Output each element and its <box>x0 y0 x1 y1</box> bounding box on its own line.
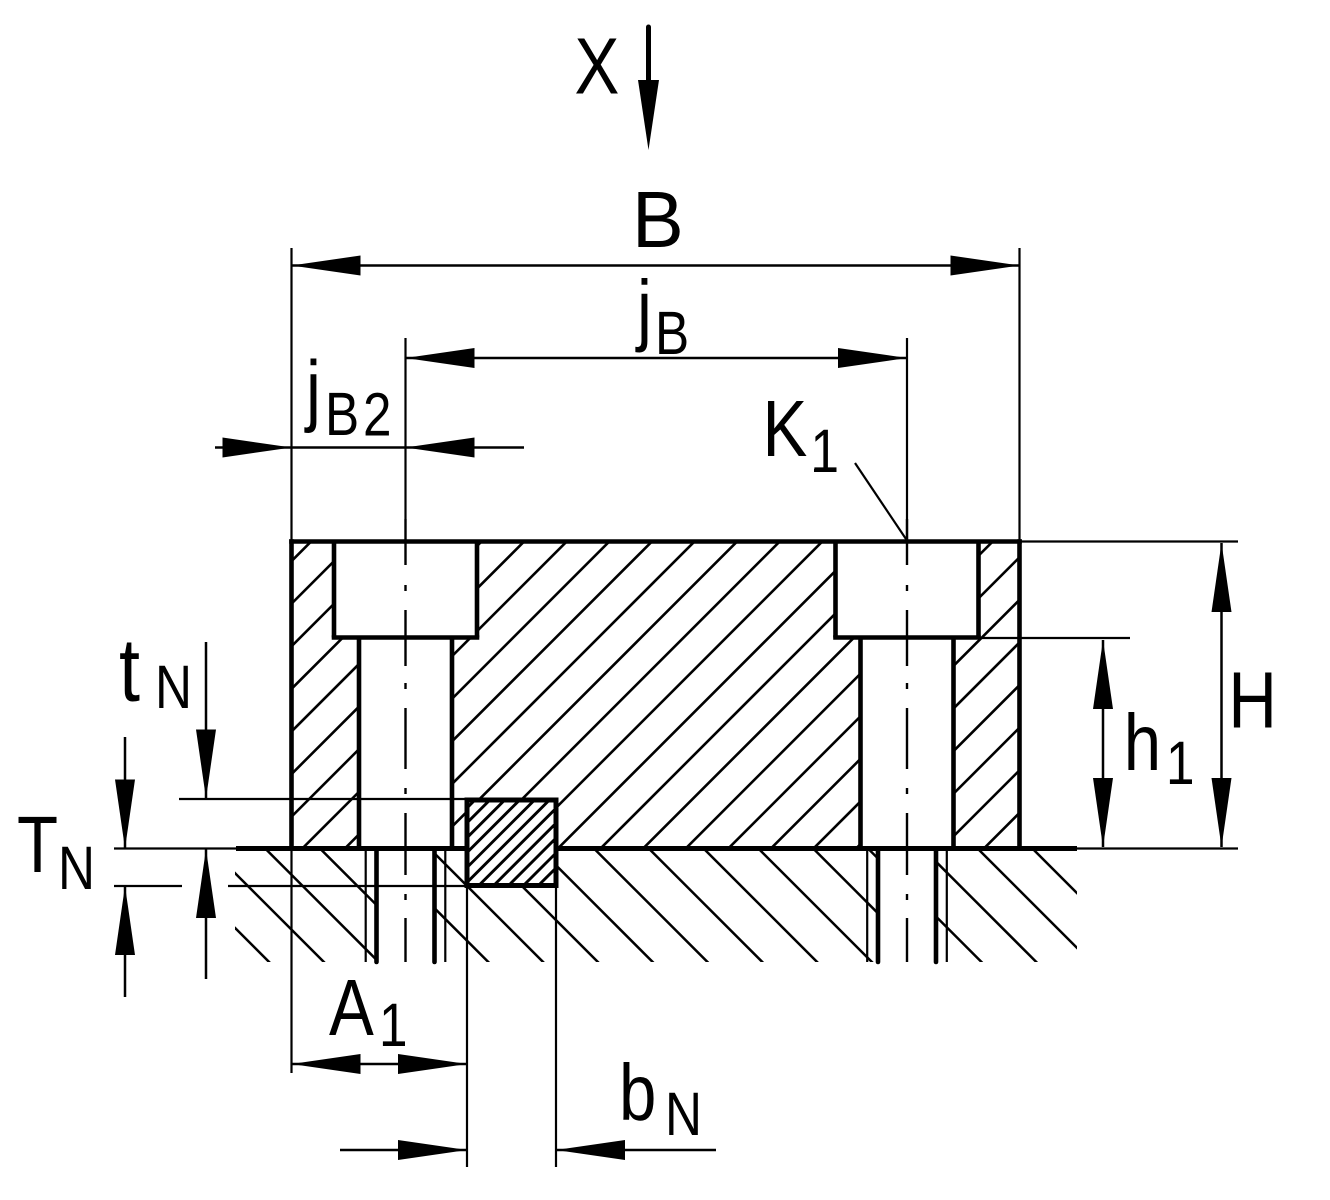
svg-text:1: 1 <box>379 991 407 1059</box>
svg-text:j: j <box>304 344 321 434</box>
svg-text:t: t <box>119 620 140 721</box>
svg-text:1: 1 <box>1166 729 1194 797</box>
svg-text:b: b <box>619 1047 656 1137</box>
svg-text:N: N <box>665 1080 702 1148</box>
svg-text:1: 1 <box>811 417 839 485</box>
svg-text:N: N <box>155 653 192 721</box>
svg-text:j: j <box>635 263 652 353</box>
svg-text:B: B <box>325 380 359 448</box>
svg-text:2: 2 <box>363 380 391 448</box>
svg-text:A: A <box>329 962 374 1052</box>
svg-text:K: K <box>763 383 808 473</box>
svg-text:N: N <box>58 834 95 902</box>
svg-text:B: B <box>632 175 684 264</box>
svg-text:T: T <box>17 799 58 889</box>
svg-text:H: H <box>1228 655 1277 745</box>
svg-text:B: B <box>655 299 689 367</box>
svg-text:X: X <box>575 21 620 111</box>
svg-text:h: h <box>1124 697 1161 787</box>
